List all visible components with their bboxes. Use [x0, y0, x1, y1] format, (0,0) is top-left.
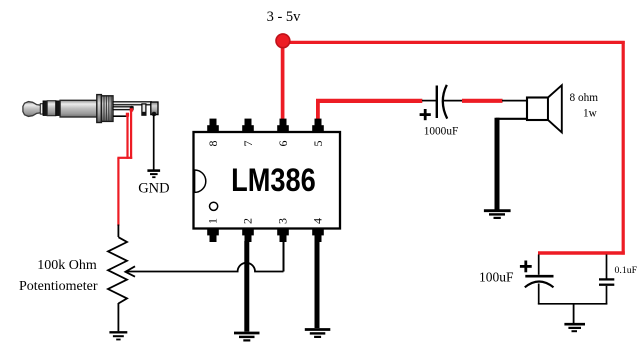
- pin 2 stub: [242, 228, 254, 242]
- wire black: C3 bottom lead: [606, 286, 608, 305]
- junction: red feed to output caps: [538, 255, 540, 275]
- capacitor C2 100uF curved plate: [525, 281, 554, 287]
- potentiometer R1 top lead: [117, 225, 119, 238]
- pin 4 stub: [312, 228, 324, 242]
- pin 8 stub: [207, 119, 219, 133]
- wire black: pin 3 down: [283, 241, 285, 272]
- capacitor C3 0.1uF bottom plate: [599, 284, 614, 286]
- capacitor C2 100uF top plate: [525, 275, 553, 278]
- speaker LS1 body: [527, 98, 548, 121]
- ground: speaker: [484, 211, 511, 218]
- svg-text:3: 3: [276, 218, 290, 224]
- IC notch: [195, 170, 206, 192]
- ring lug hanging tab: [142, 104, 146, 115]
- wire red: jack lug B down: [130, 111, 132, 159]
- jack plug tip: [23, 102, 41, 117]
- wire black: C1 to red segment: [443, 100, 463, 102]
- potentiometer R1 bottom lead: [117, 303, 119, 331]
- wire red: node right along top: [288, 41, 625, 44]
- wire red: bottom run to capacitor junction: [538, 251, 625, 254]
- wire red: segment to speaker: [462, 99, 503, 103]
- wire red: joining run left: [117, 157, 132, 159]
- wire black: bottom rail: [538, 303, 607, 305]
- wire red: down to potentiometer: [117, 158, 119, 226]
- power node 3-5v: [276, 34, 290, 48]
- svg-text:8 ohm: 8 ohm: [570, 92, 599, 104]
- svg-text:2: 2: [241, 218, 255, 224]
- jack plug threaded collar: [101, 96, 113, 122]
- svg-text:Potentiometer: Potentiometer: [19, 279, 98, 294]
- svg-text:3 - 5v: 3 - 5v: [267, 9, 302, 25]
- pin 1 index circle: [210, 202, 218, 210]
- pin 1 stub: [207, 228, 219, 242]
- capacitor C1 1000uF curved plate: [443, 85, 447, 119]
- wire black: pin 3 to wiper with hop over pin2 wire: [126, 263, 284, 272]
- wire black: C2 bottom lead: [538, 284, 540, 305]
- jack plug insulator ring 2: [56, 101, 60, 116]
- pin 7 stub: [242, 119, 254, 133]
- ground: jack GND: [147, 171, 160, 178]
- wire black: pin 4 to ground (thick): [315, 241, 320, 328]
- wiper arrowhead: [125, 266, 135, 276]
- svg-text:4: 4: [311, 218, 325, 224]
- pin 3 stub: [277, 228, 289, 242]
- capacitor C3 0.1uF top plate: [599, 278, 614, 280]
- wire black: speaker negative lead: [497, 119, 528, 210]
- ring lug solder blob: [142, 112, 147, 116]
- ground: potentiometer: [109, 332, 127, 339]
- wire red: pin 5 across to C1: [316, 99, 422, 103]
- plus sign of C2: [520, 261, 532, 273]
- capacitor C1 1000uF positive plate: [436, 86, 438, 119]
- wire red: jack lug A down: [126, 116, 128, 159]
- svg-text:100k Ohm: 100k Ohm: [37, 258, 97, 273]
- tip lug red joint: [130, 108, 133, 111]
- third lug line: [113, 115, 127, 117]
- jack plug tip neck ring: [40, 104, 43, 114]
- wire black: into speaker: [502, 100, 528, 102]
- sleeve lug solder blob: [152, 112, 157, 117]
- svg-text:1: 1: [206, 218, 220, 224]
- svg-text:100uF: 100uF: [479, 269, 514, 284]
- third lug red joint: [126, 113, 129, 117]
- jack plug collar flange: [97, 95, 102, 123]
- collar ridges: [104, 97, 111, 122]
- ground: pin 2: [234, 333, 260, 340]
- tip lug solder dot: [130, 106, 134, 110]
- svg-text:5: 5: [311, 141, 325, 147]
- svg-text:1w: 1w: [583, 107, 598, 119]
- wire black: into C1: [422, 100, 437, 102]
- ground: pin 4: [305, 330, 331, 337]
- svg-text:6: 6: [276, 141, 290, 147]
- wire black: ground stub: [573, 304, 575, 323]
- pin 5 stub: [312, 119, 324, 133]
- wire black: pin 2 to ground (thick): [244, 241, 249, 332]
- jack plug ring contact: [47, 101, 56, 116]
- wire black: C3 top lead: [606, 255, 608, 279]
- wire red: pin 5 up: [316, 99, 320, 123]
- svg-text:1000uF: 1000uF: [424, 125, 459, 137]
- potentiometer R1 zigzag: [108, 237, 127, 303]
- svg-text:8: 8: [206, 141, 220, 147]
- sleeve terminal lug: [151, 102, 158, 115]
- svg-text:7: 7: [241, 141, 255, 147]
- wire red: right side down: [622, 41, 625, 255]
- tip lug bar: [113, 107, 133, 110]
- svg-text:0.1uF: 0.1uF: [615, 265, 638, 276]
- ground: output filter: [564, 324, 585, 331]
- speaker LS1 cone: [548, 85, 562, 132]
- plus sign of C1: [420, 109, 431, 120]
- wire black: speaker ground drop (thick): [495, 118, 500, 210]
- jack plug barrel: [60, 100, 97, 117]
- wire red: node down to pin 6: [281, 44, 285, 123]
- svg-text:LM386: LM386: [231, 163, 316, 199]
- wire black: jack sleeve to ground: [153, 115, 155, 170]
- sleeve lug bar: [113, 102, 151, 105]
- svg-text:GND: GND: [138, 181, 169, 197]
- pin 6 stub: [277, 119, 289, 133]
- jack plug insulator ring 1: [43, 101, 47, 116]
- IC U1 LM386 body: [194, 132, 341, 229]
